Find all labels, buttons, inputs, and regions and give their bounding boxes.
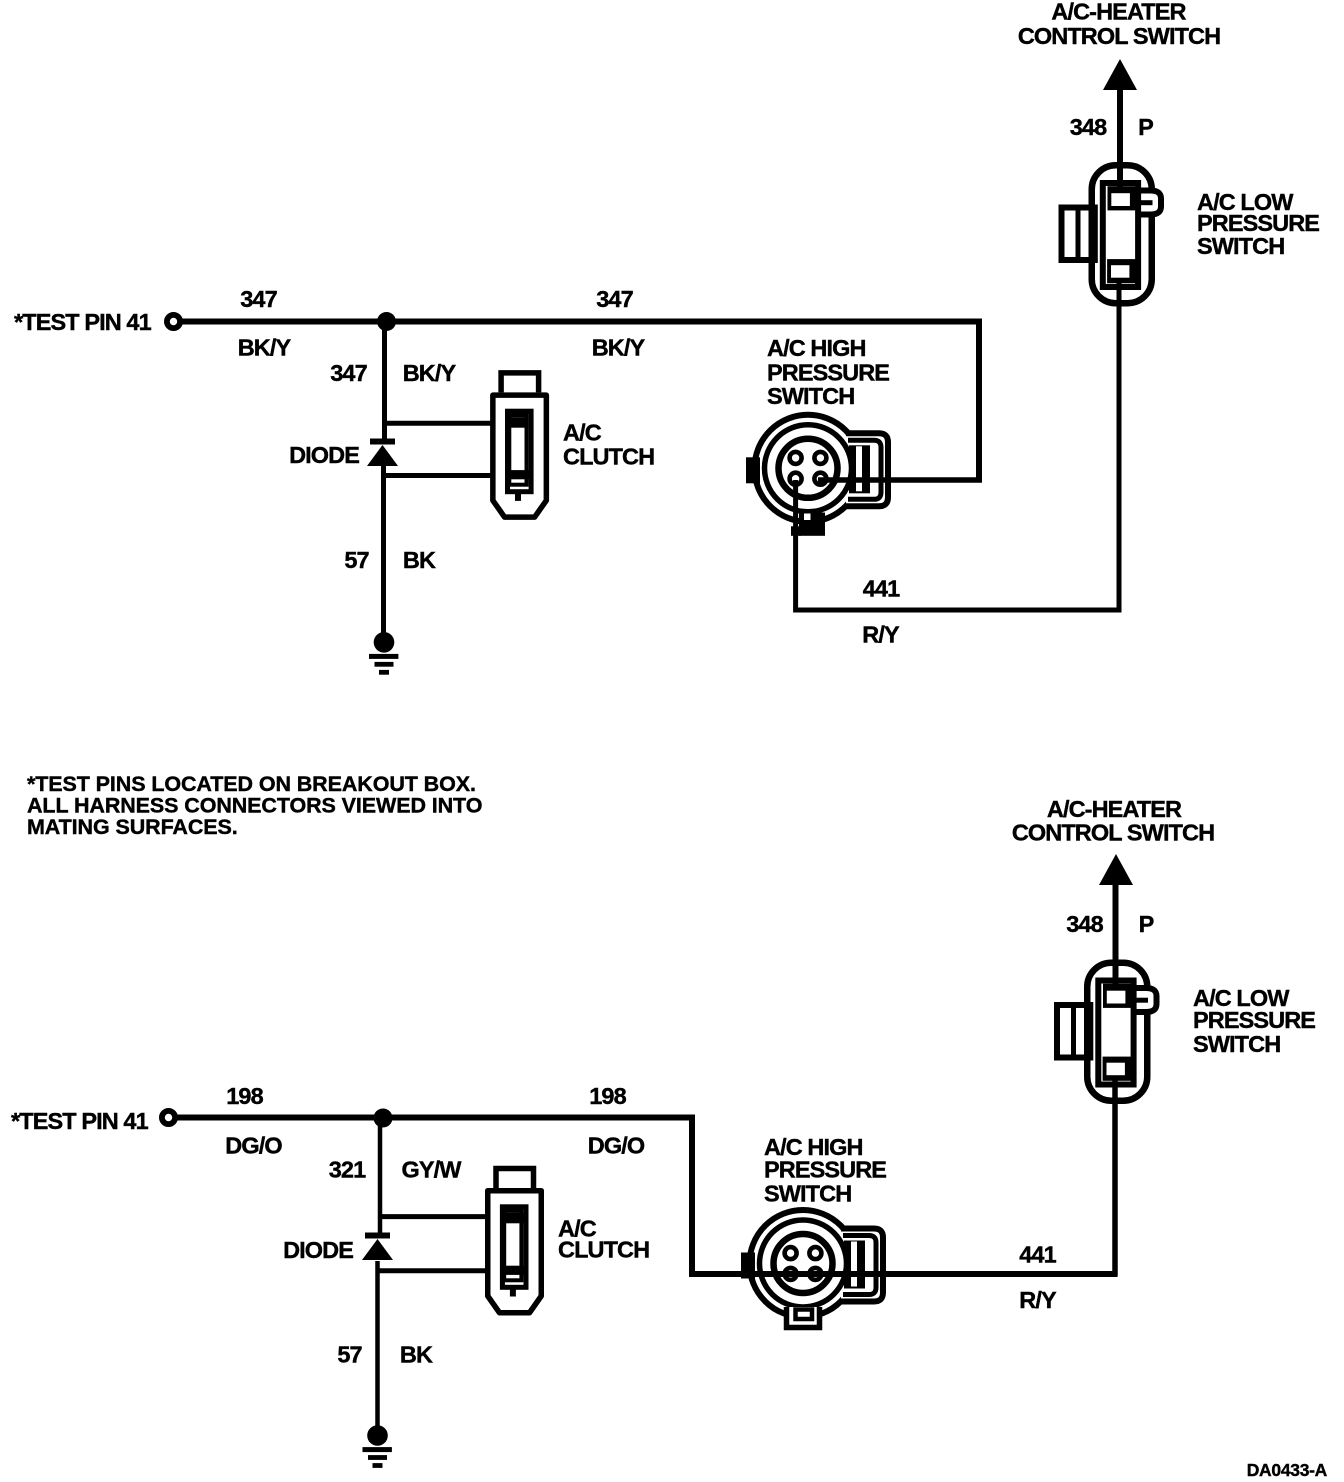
svg-text:BK/Y: BK/Y: [403, 360, 457, 386]
svg-text:SWITCH: SWITCH: [1193, 1031, 1280, 1057]
wire 347 BK/Y main horizontal (top): [181, 319, 980, 325]
svg-text:A/C HIGH: A/C HIGH: [767, 335, 866, 361]
svg-text:R/Y: R/Y: [862, 622, 900, 648]
svg-text:347: 347: [330, 360, 367, 386]
svg-text:MATING SURFACES.: MATING SURFACES.: [27, 815, 238, 839]
wire 57 BK to ground (top): [381, 464, 386, 634]
svg-text:R/Y: R/Y: [1019, 1287, 1057, 1313]
test pin terminal (bottom): [162, 1111, 175, 1124]
svg-text:CONTROL SWITCH: CONTROL SWITCH: [1012, 820, 1214, 846]
wire to A/C clutch upper terminal (bottom): [378, 1214, 522, 1219]
wire to A/C clutch lower terminal (bottom): [378, 1268, 525, 1273]
wire 441 R/Y from HPS bottom pin to low pressure switch (top): [796, 283, 1119, 610]
svg-text:348: 348: [1066, 911, 1103, 937]
svg-text:A/C-HEATER: A/C-HEATER: [1051, 0, 1186, 25]
wire to A/C clutch lower terminal (top): [382, 473, 530, 478]
svg-text:57: 57: [344, 547, 369, 573]
svg-text:SWITCH: SWITCH: [764, 1181, 851, 1207]
svg-text:DA0433-A: DA0433-A: [1247, 1460, 1328, 1480]
svg-text:DG/O: DG/O: [588, 1133, 645, 1159]
wire 347 BK/Y vertical branch (top): [382, 322, 387, 441]
A/C high pressure switch connector (bottom): [741, 1210, 883, 1317]
svg-text:BK: BK: [400, 1342, 433, 1368]
A/C clutch connector (bottom): [488, 1169, 542, 1313]
svg-text:BK/Y: BK/Y: [238, 335, 292, 361]
A/C low pressure switch (top): [1062, 165, 1162, 303]
svg-text:A/C-HEATER: A/C-HEATER: [1047, 796, 1182, 822]
svg-text:DIODE: DIODE: [289, 442, 359, 468]
wire corner down to high pressure switch (top): [976, 319, 982, 483]
svg-text:BK/Y: BK/Y: [592, 335, 646, 361]
svg-text:198: 198: [589, 1083, 626, 1109]
svg-text:PRESSURE: PRESSURE: [764, 1157, 886, 1183]
svg-text:57: 57: [337, 1342, 362, 1368]
svg-text:CONTROL SWITCH: CONTROL SWITCH: [1018, 23, 1220, 49]
wire 198 DG/O main horizontal (bottom): [176, 1115, 692, 1121]
wire to A/C clutch upper terminal (top): [382, 421, 527, 426]
test pin terminal (top): [167, 315, 180, 328]
svg-text:198: 198: [226, 1083, 263, 1109]
wire 441 R/Y horizontal through switch (bottom): [689, 1271, 1118, 1277]
svg-text:SWITCH: SWITCH: [1197, 233, 1284, 259]
svg-text:P: P: [1139, 911, 1154, 937]
wire 348 P (top): [1117, 88, 1123, 191]
svg-text:CLUTCH: CLUTCH: [563, 444, 654, 470]
arrow to A/C-heater control switch (bottom): [1099, 854, 1133, 885]
svg-text:CLUTCH: CLUTCH: [558, 1237, 649, 1263]
wire from HPS right pin to corner (top): [818, 477, 982, 483]
ground symbol (bottom): [363, 1425, 392, 1468]
HPS locking notch (top): [791, 513, 825, 536]
wire corner down from main to switch level (bottom): [689, 1115, 695, 1278]
svg-text:PRESSURE: PRESSURE: [767, 360, 889, 386]
svg-text:321: 321: [329, 1157, 366, 1183]
wire 348 P (bottom): [1113, 883, 1119, 989]
ground symbol (top): [369, 632, 398, 675]
svg-text:*TEST PIN 41: *TEST PIN 41: [11, 1108, 149, 1134]
HPS locking notch (bottom): [787, 1307, 820, 1328]
junction node (bottom): [374, 1109, 393, 1128]
wire 321 GY/W vertical branch (bottom): [378, 1118, 383, 1234]
svg-text:SWITCH: SWITCH: [767, 383, 854, 409]
diode (top): [367, 439, 398, 467]
junction node (top): [377, 312, 396, 331]
A/C low pressure switch (bottom): [1057, 963, 1157, 1101]
svg-text:441: 441: [1019, 1242, 1056, 1268]
A/C clutch connector (top): [493, 373, 546, 517]
svg-text:441: 441: [863, 576, 900, 602]
svg-text:ALL HARNESS CONNECTORS VIEWED: ALL HARNESS CONNECTORS VIEWED INTO: [27, 794, 482, 818]
svg-text:347: 347: [596, 286, 633, 312]
wire 57 BK to ground (bottom): [375, 1261, 380, 1426]
diode (bottom): [362, 1233, 393, 1261]
svg-text:A/C: A/C: [563, 420, 602, 446]
svg-text:DIODE: DIODE: [283, 1237, 353, 1263]
svg-text:PRESSURE: PRESSURE: [1193, 1007, 1315, 1033]
svg-text:BK: BK: [403, 547, 436, 573]
A/C high pressure switch connector (top): [746, 415, 888, 522]
svg-text:GY/W: GY/W: [401, 1157, 462, 1183]
svg-text:348: 348: [1070, 114, 1107, 140]
wire up to low pressure switch (bottom): [1112, 1076, 1118, 1276]
arrow to A/C-heater control switch (top): [1103, 59, 1137, 90]
svg-text:*TEST PIN 41: *TEST PIN 41: [14, 309, 152, 335]
svg-text:P: P: [1138, 114, 1153, 140]
svg-text:*TEST PINS LOCATED ON BREAKOUT: *TEST PINS LOCATED ON BREAKOUT BOX.: [27, 772, 476, 796]
svg-text:DG/O: DG/O: [225, 1133, 282, 1159]
svg-text:347: 347: [240, 286, 277, 312]
